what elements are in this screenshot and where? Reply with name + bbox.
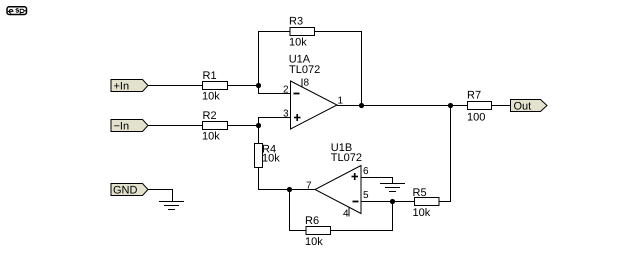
junction node C — [256, 123, 261, 128]
resistor R2 — [203, 122, 228, 130]
junction node E — [390, 199, 395, 204]
connector -In — [111, 120, 148, 133]
wire R2 to node C — [228, 125, 260, 127]
svg-text:10k: 10k — [262, 152, 280, 164]
junction node B — [359, 103, 364, 108]
svg-text:3: 3 — [283, 109, 289, 120]
wire U1B pin 5 to R5 — [362, 201, 415, 203]
svg-text:1: 1 — [338, 96, 344, 107]
wire GND tag to ground — [148, 190, 173, 202]
resistor R5 — [415, 198, 440, 206]
connector GND — [111, 184, 148, 197]
svg-text:+In: +In — [114, 81, 130, 93]
wire U1A output to R7 — [337, 105, 468, 107]
wire R3 right down to output node B — [315, 32, 362, 106]
wire R7 to Out — [492, 105, 511, 107]
wire R5 right up to node F — [439, 106, 451, 202]
svg-text:10k: 10k — [413, 207, 431, 219]
resistor R1 — [203, 82, 228, 90]
wire -In to R2 — [148, 125, 203, 127]
ground symbol at U1B pin 6 — [380, 184, 405, 192]
esp logo — [7, 7, 27, 15]
svg-text:R3: R3 — [289, 16, 303, 28]
svg-text:2: 2 — [283, 85, 289, 96]
U1B minus input mark — [353, 201, 359, 203]
op-amp U1A — [291, 81, 338, 129]
U1A plus input mark — [294, 114, 301, 121]
wire node D down to R6 left — [290, 190, 307, 231]
wire node A up to R3 left — [259, 32, 291, 86]
wire U1B pin 6 to ground — [362, 178, 393, 184]
svg-text:6: 6 — [363, 166, 369, 177]
svg-text:TL072: TL072 — [331, 152, 362, 164]
svg-text:GND: GND — [113, 185, 138, 197]
svg-text:10k: 10k — [202, 91, 220, 103]
svg-text:10k: 10k — [305, 236, 323, 248]
connector +In — [111, 80, 148, 93]
resistor R6 — [306, 227, 331, 235]
svg-text:Out: Out — [514, 101, 532, 113]
svg-text:−In: −In — [114, 121, 130, 133]
resistor R4 — [255, 144, 263, 168]
svg-text:10k: 10k — [289, 37, 307, 49]
resistor R7 — [468, 102, 492, 110]
wire R6 right up to node E — [331, 202, 393, 231]
U1A pin 8 stub — [301, 79, 303, 88]
wire node C down to R4 — [258, 126, 260, 144]
junction node F — [448, 103, 453, 108]
U1B plus input mark — [352, 173, 359, 180]
svg-text:7: 7 — [306, 181, 312, 192]
svg-text:10k: 10k — [202, 131, 220, 143]
wire +In to R1 — [148, 85, 203, 87]
junction node D — [287, 187, 292, 192]
svg-text:R6: R6 — [305, 215, 319, 227]
junction node A — [256, 83, 261, 88]
svg-text:4: 4 — [343, 209, 349, 220]
svg-text:R2: R2 — [203, 110, 217, 122]
svg-text:R7: R7 — [467, 90, 481, 102]
connector Out — [511, 100, 548, 113]
wire R1 to node A — [228, 85, 260, 87]
resistor R3 — [290, 28, 315, 36]
wire node A to U1A pin 2 — [259, 86, 292, 94]
svg-text:8: 8 — [304, 78, 310, 89]
svg-text:100: 100 — [467, 112, 485, 124]
svg-text:R5: R5 — [413, 187, 427, 199]
wire R4 bottom to node D and U1B pin 7 — [259, 168, 316, 190]
op-amp U1B — [315, 166, 361, 214]
ground symbol at GND — [159, 202, 184, 210]
svg-text:R1: R1 — [203, 70, 217, 82]
U1A minus input mark — [294, 93, 300, 95]
svg-text:TL072: TL072 — [289, 64, 320, 76]
U1B pin 4 stub — [348, 207, 350, 217]
svg-text:5: 5 — [363, 190, 369, 201]
wire node C to U1A pin 3 — [259, 118, 292, 126]
